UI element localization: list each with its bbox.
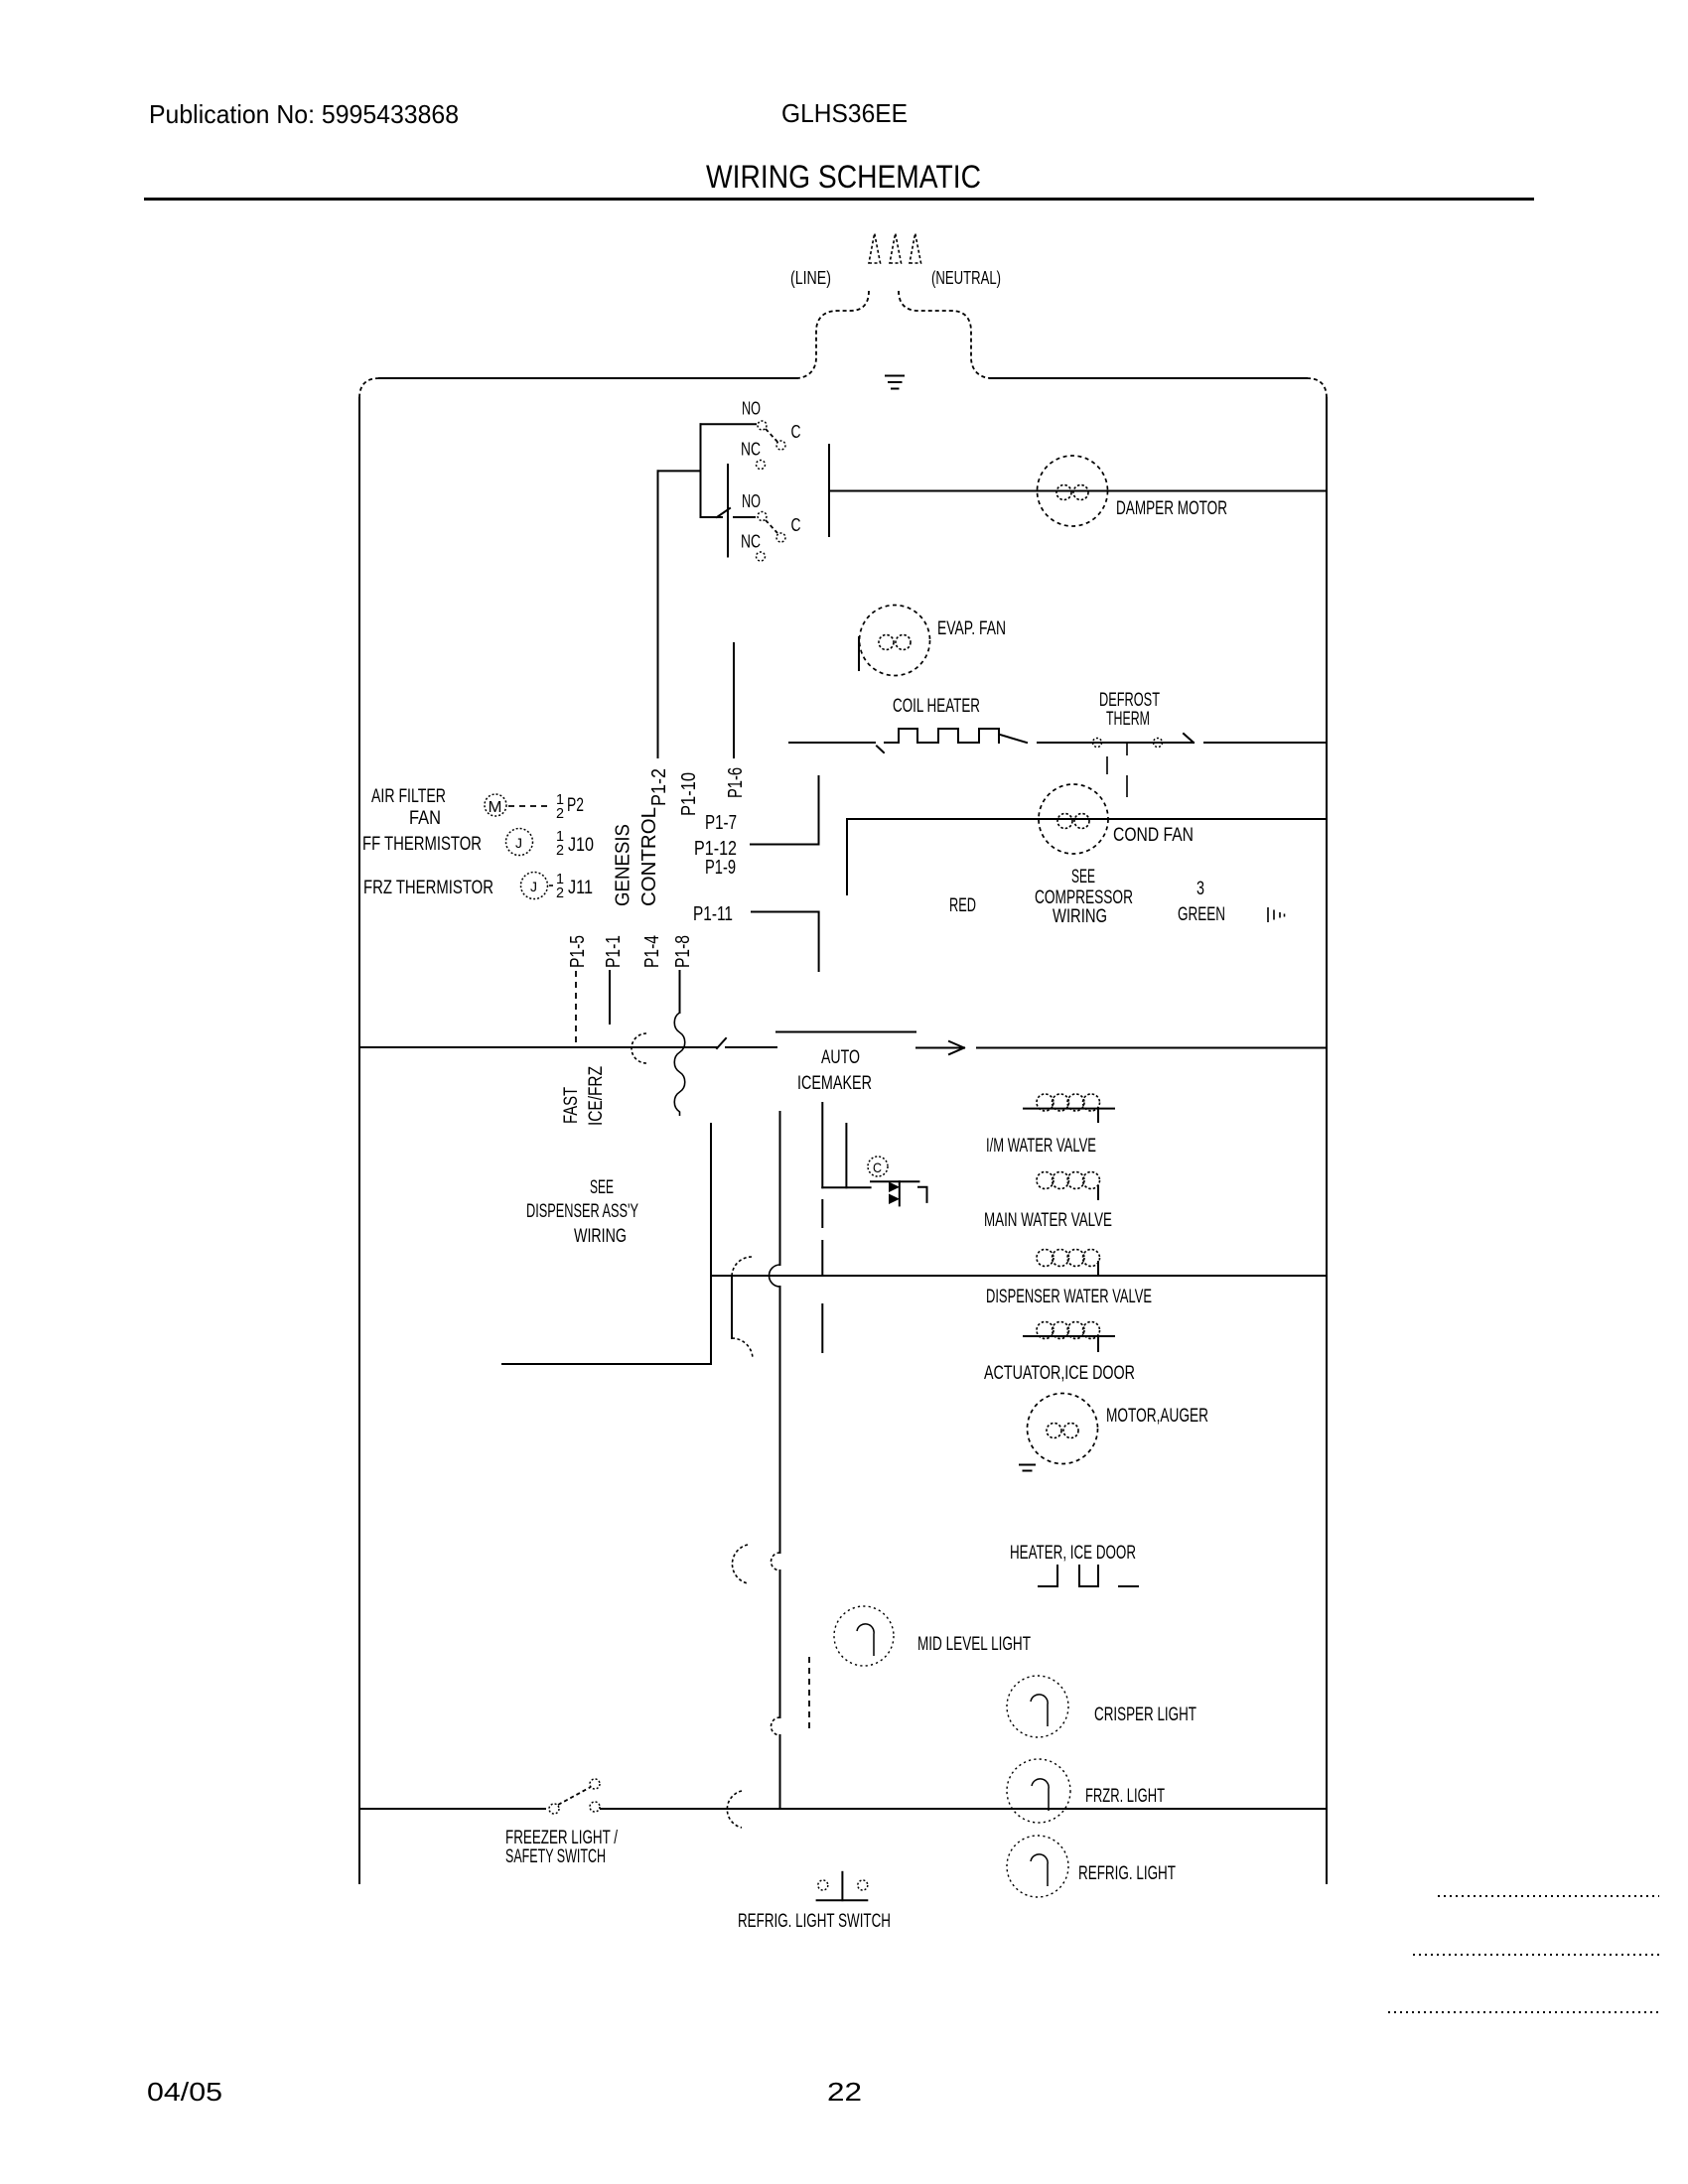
svg-text:GENESIS: GENESIS — [613, 824, 634, 906]
svg-text:P1-10: P1-10 — [678, 772, 700, 816]
svg-text:MAIN WATER VALVE: MAIN WATER VALVE — [984, 1210, 1112, 1231]
svg-text:J10: J10 — [568, 835, 594, 856]
svg-text:AIR FILTER: AIR FILTER — [371, 786, 446, 807]
svg-text:SEE: SEE — [590, 1177, 614, 1198]
svg-text:FAST: FAST — [561, 1087, 582, 1124]
svg-text:P1-6: P1-6 — [725, 767, 747, 798]
svg-text:COIL HEATER: COIL HEATER — [893, 696, 980, 717]
svg-text:C: C — [791, 422, 801, 442]
svg-text:2: 2 — [556, 842, 564, 859]
svg-text:P1-5: P1-5 — [567, 935, 589, 968]
svg-text:SEE: SEE — [1071, 867, 1095, 887]
svg-text:P1-4: P1-4 — [641, 935, 663, 968]
svg-text:FF THERMISTOR: FF THERMISTOR — [362, 834, 482, 855]
svg-text:EVAP. FAN: EVAP. FAN — [937, 618, 1006, 639]
svg-text:P1-8: P1-8 — [672, 935, 694, 968]
svg-text:ACTUATOR,ICE DOOR: ACTUATOR,ICE DOOR — [984, 1363, 1135, 1384]
svg-text:CRISPER LIGHT: CRISPER LIGHT — [1094, 1705, 1196, 1725]
svg-text:COMPRESSOR: COMPRESSOR — [1035, 887, 1133, 908]
svg-text:DISPENSER WATER VALVE: DISPENSER WATER VALVE — [986, 1287, 1152, 1307]
svg-text:04/05: 04/05 — [147, 2077, 222, 2107]
svg-text:J11: J11 — [568, 878, 593, 898]
svg-text:P2: P2 — [567, 795, 584, 816]
svg-text:HEATER, ICE DOOR: HEATER, ICE DOOR — [1010, 1543, 1136, 1564]
svg-text:P1-2: P1-2 — [648, 768, 670, 806]
svg-text:P1-11: P1-11 — [693, 903, 733, 925]
svg-text:P1-7: P1-7 — [705, 812, 737, 834]
svg-text:J: J — [515, 835, 522, 851]
svg-text:MID LEVEL LIGHT: MID LEVEL LIGHT — [917, 1634, 1031, 1655]
svg-text:WIRING: WIRING — [574, 1226, 627, 1247]
svg-text:P1-1: P1-1 — [603, 935, 625, 968]
svg-text:MOTOR,AUGER: MOTOR,AUGER — [1106, 1406, 1208, 1427]
svg-text:C: C — [791, 515, 801, 535]
svg-text:Publication No: 5995433868: Publication No: 5995433868 — [149, 99, 459, 129]
svg-text:22: 22 — [827, 2077, 862, 2107]
svg-text:(LINE): (LINE) — [790, 268, 831, 288]
svg-text:REFRIG. LIGHT SWITCH: REFRIG. LIGHT SWITCH — [738, 1911, 891, 1932]
svg-text:NC: NC — [741, 532, 761, 552]
svg-text:COND FAN: COND FAN — [1113, 825, 1194, 846]
svg-text:2: 2 — [556, 805, 564, 822]
svg-text:GREEN: GREEN — [1178, 904, 1225, 925]
svg-text:WIRING SCHEMATIC: WIRING SCHEMATIC — [706, 159, 981, 195]
svg-text:AUTO: AUTO — [821, 1047, 860, 1068]
svg-text:RED: RED — [949, 895, 976, 916]
svg-text:NC: NC — [741, 440, 761, 460]
svg-text:ICE/FRZ: ICE/FRZ — [586, 1066, 607, 1126]
svg-text:DISPENSER ASS'Y: DISPENSER ASS'Y — [526, 1201, 638, 1222]
svg-text:P1-9: P1-9 — [705, 857, 736, 879]
svg-text:GLHS36EE: GLHS36EE — [781, 98, 908, 128]
svg-text:DAMPER MOTOR: DAMPER MOTOR — [1116, 498, 1227, 519]
svg-text:DEFROST: DEFROST — [1099, 690, 1160, 711]
svg-text:J: J — [530, 879, 537, 894]
svg-text:FRZR. LIGHT: FRZR. LIGHT — [1085, 1786, 1165, 1807]
svg-text:CONTROL: CONTROL — [638, 807, 660, 906]
svg-text:I/M WATER VALVE: I/M WATER VALVE — [986, 1136, 1096, 1157]
svg-text:NO: NO — [742, 491, 761, 511]
svg-text:REFRIG. LIGHT: REFRIG. LIGHT — [1078, 1863, 1176, 1884]
svg-text:FAN: FAN — [409, 808, 441, 829]
svg-text:THERM: THERM — [1106, 709, 1150, 730]
svg-text:ICEMAKER: ICEMAKER — [797, 1073, 872, 1094]
svg-text:FRZ THERMISTOR: FRZ THERMISTOR — [363, 878, 493, 898]
svg-text:M: M — [489, 799, 502, 816]
svg-text:3: 3 — [1196, 879, 1204, 899]
svg-text:WIRING: WIRING — [1053, 906, 1107, 927]
svg-text:2: 2 — [556, 885, 564, 901]
svg-text:FREEZER LIGHT /: FREEZER LIGHT / — [505, 1828, 619, 1848]
svg-text:C: C — [873, 1160, 882, 1175]
svg-text:NO: NO — [742, 399, 761, 419]
svg-text:(NEUTRAL): (NEUTRAL) — [931, 268, 1001, 288]
svg-text:SAFETY SWITCH: SAFETY SWITCH — [505, 1846, 606, 1867]
